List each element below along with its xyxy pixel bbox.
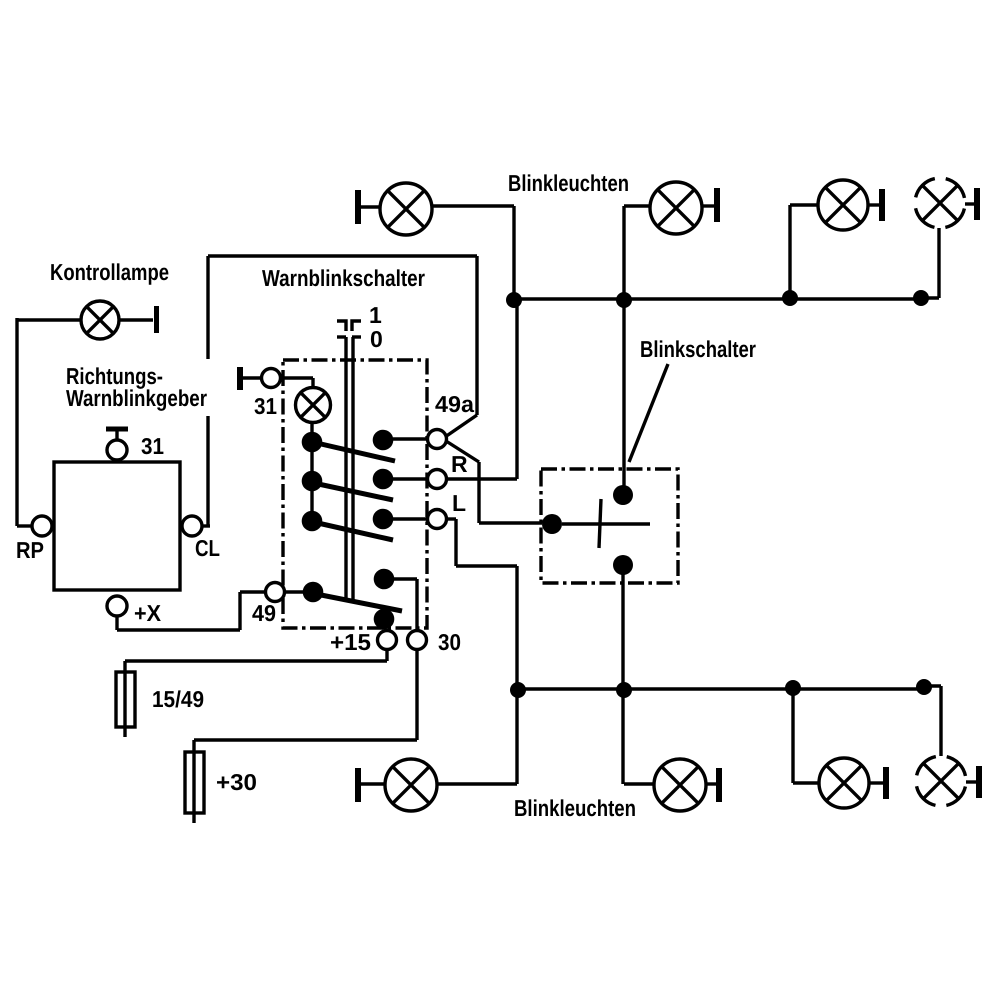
- svg-text:30: 30: [438, 629, 461, 655]
- svg-text:49a: 49a: [435, 391, 474, 417]
- svg-text:Warnblinkschalter: Warnblinkschalter: [262, 265, 425, 291]
- svg-text:Warnblinkgeber: Warnblinkgeber: [66, 385, 207, 411]
- svg-text:1: 1: [369, 302, 382, 328]
- svg-text:Blinkleuchten: Blinkleuchten: [508, 170, 629, 196]
- svg-text:RP: RP: [16, 537, 44, 563]
- svg-text:+15: +15: [330, 629, 371, 655]
- svg-text:Blinkschalter: Blinkschalter: [640, 336, 756, 362]
- svg-text:0: 0: [370, 326, 383, 352]
- svg-text:Kontrollampe: Kontrollampe: [50, 259, 169, 285]
- svg-text:CL: CL: [195, 535, 220, 561]
- svg-text:R: R: [451, 451, 468, 477]
- svg-text:+X: +X: [134, 600, 162, 626]
- svg-text:+30: +30: [216, 769, 257, 795]
- svg-text:Blinkleuchten: Blinkleuchten: [514, 795, 636, 821]
- svg-text:15/49: 15/49: [152, 686, 204, 712]
- svg-text:31: 31: [254, 393, 277, 419]
- svg-text:49: 49: [252, 600, 276, 626]
- svg-text:L: L: [452, 490, 466, 516]
- svg-text:31: 31: [141, 433, 164, 459]
